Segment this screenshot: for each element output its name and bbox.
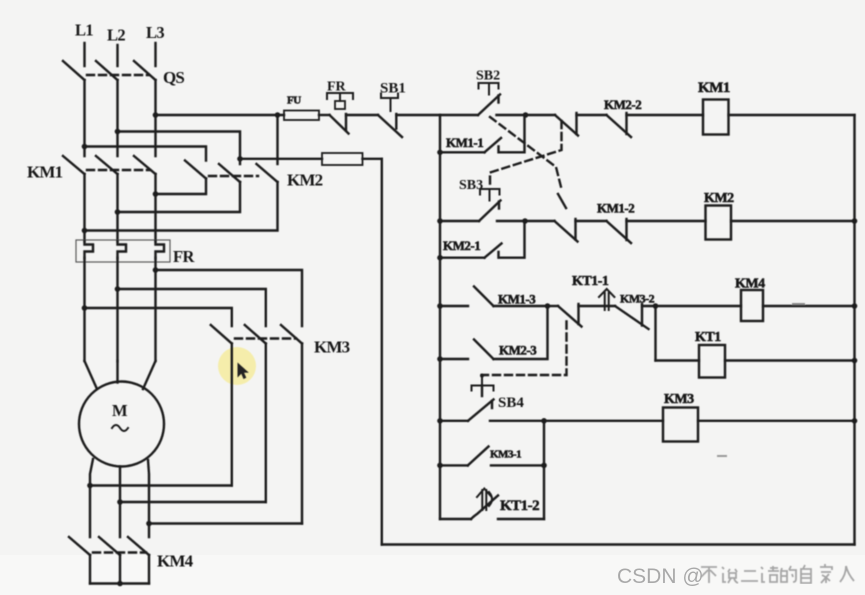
contactor KM2 pole 1 blade — [185, 161, 206, 179]
wire KM3 feed from L3 — [156, 270, 303, 326]
wire L3 branch to FU and control — [156, 114, 285, 116]
coil KM1 box — [703, 100, 729, 135]
contact KM2-2 NC blade — [607, 115, 632, 137]
contactor KM1 link dashed — [87, 169, 150, 171]
node junction motor out 3 to KM3 — [146, 521, 152, 527]
pushbutton SB2 actuator — [479, 83, 499, 95]
node junction rail KM1-3 — [437, 303, 443, 309]
motor tilde symbol — [112, 425, 128, 431]
glyph jia — [820, 564, 832, 583]
pushbutton SB3 actuator — [480, 189, 500, 201]
contact KM2-2 NC fixed bar — [625, 113, 627, 134]
svg-text:SB2: SB2 — [476, 69, 500, 84]
node junction right rail KM3 — [852, 418, 858, 424]
node junction rail KM1-1 — [437, 150, 443, 156]
wire L2 branch to KM2 pole2 — [118, 132, 241, 165]
contact KM2-1 wire right — [499, 221, 525, 258]
pushbutton SB2 blade — [478, 95, 500, 116]
svg-text:KM3: KM3 — [664, 392, 694, 407]
wire node E vertical — [543, 421, 545, 519]
contact SB2-linked NC fixed bar rung2 — [574, 219, 576, 240]
rung 6 wire SB4 to node E — [490, 420, 544, 422]
wire L2 supply stub — [116, 45, 118, 66]
timer contact KT1-2 blade — [471, 496, 498, 520]
svg-text:KM3-2: KM3-2 — [620, 292, 655, 306]
contact KM1-3 wire left — [440, 305, 468, 307]
rung 1 wire to KM2-2 — [577, 114, 607, 116]
contact KM3-2 NC blade — [615, 306, 649, 329]
wire L1 branch to KM2 pole1 — [85, 147, 207, 161]
rung 2 wire node B to SB2 linked NC — [525, 220, 555, 222]
node junction motor out 1 to KM3 — [87, 483, 93, 489]
svg-text:KM3-1: KM3-1 — [490, 449, 521, 461]
rung 4 wire coil KM4 to right rail — [763, 305, 855, 307]
rung 2 wire to KM1-2 — [576, 220, 607, 222]
wire KM3 pole2 down — [265, 344, 267, 503]
contact KM3-1 NO blade — [468, 447, 489, 466]
contactor KM3 link dashed — [235, 337, 296, 339]
rung 4 wire KM1-3 to node C — [494, 305, 548, 307]
dashed link rung1 NC to SB3 — [490, 121, 562, 188]
contact SB3-linked NC blade rung1 — [555, 115, 578, 136]
node junction rail SB4 — [437, 418, 443, 424]
svg-text:SB4: SB4 — [498, 395, 524, 411]
wire SB1 to left rail — [396, 114, 440, 116]
wire motor lead in 3 — [143, 361, 156, 389]
node junction KM3 feed L3 — [153, 267, 159, 273]
svg-text:SB1: SB1 — [380, 81, 406, 97]
contact KM3-2 NC fixed bar — [641, 304, 643, 326]
node junction rail KM2-1 — [437, 255, 443, 261]
watermark CSDN — [617, 565, 704, 588]
svg-text:L2: L2 — [107, 26, 125, 45]
wire L1 FR to motor — [83, 258, 85, 361]
thermal contact FR actuator — [327, 93, 353, 101]
coil KT1 box — [699, 345, 725, 378]
glyph ren — [840, 566, 854, 582]
wire bottom return rail — [382, 543, 855, 545]
wire FU2 to return rail corner — [363, 158, 382, 160]
contactor KM3 pole 1 blade — [211, 325, 232, 344]
svg-text:KM4: KM4 — [157, 552, 194, 571]
contactor KM4 pole 2 blade — [99, 537, 120, 555]
glyph zi — [801, 565, 811, 583]
contactor KM3 pole 2 blade — [245, 325, 266, 344]
svg-text:QS: QS — [163, 68, 184, 87]
wire KM2 pole3 feed vertical — [276, 115, 278, 164]
contactor KM2 pole 2 blade — [219, 164, 240, 182]
node D junction — [653, 303, 659, 309]
contact KM1-1 wire left — [440, 151, 485, 153]
svg-text:KM2-1: KM2-1 — [443, 238, 480, 253]
wire L3 vertical QS to KM1 — [154, 80, 156, 156]
rung 1 wire node A to SB3 linked NC — [526, 114, 556, 116]
thermal relay FR heater 1 — [85, 241, 94, 258]
rung 2 wire KM1-2 to coil KM2 — [627, 220, 706, 222]
wire motor lead in 1 — [85, 361, 98, 389]
thermal relay FR box — [76, 240, 170, 262]
rung 5 wire KM2-3 up to node C — [494, 306, 548, 359]
svg-text:KM2: KM2 — [287, 171, 323, 190]
cursor arrow — [238, 363, 249, 380]
wire KM2 pole3 output crossover — [85, 182, 278, 231]
wire L3 FR to motor — [154, 258, 156, 361]
contact SB3-linked NC fixed bar rung1 — [575, 113, 577, 134]
node junction FU tap — [275, 112, 281, 118]
node junction rail KM2-3 — [437, 356, 443, 362]
rung 4 wire node D to coil KM4 — [656, 305, 742, 307]
svg-text:KM2-3: KM2-3 — [499, 343, 537, 358]
wire L2 vertical KM1 to FR — [116, 174, 118, 241]
wire motor lead out 1 — [90, 459, 93, 537]
svg-text:M: M — [112, 401, 128, 420]
timer contact KT1-1 NC blade — [558, 306, 582, 327]
contact KM2-1 wire left — [440, 257, 485, 259]
contactor KM1 pole 1 blade — [63, 156, 85, 174]
glyph shuo — [722, 567, 738, 583]
rung 1 wire rail to SB2 — [440, 114, 478, 116]
wire KM3 pole1 down — [231, 344, 233, 486]
node A junction — [523, 112, 529, 118]
timer KT1-1 delay arrow — [599, 289, 614, 310]
wire KM2 pole2 output — [118, 182, 241, 212]
node junction right rail KT1 — [852, 358, 858, 364]
contact KM2-3 NO blade — [474, 340, 494, 360]
wire FU1 to FR contact — [319, 114, 330, 116]
node junction right rail rung2 — [852, 218, 858, 224]
rung 2 wire SB3 to node B — [497, 220, 525, 222]
dashed link SB4 to KT1-1 — [482, 317, 567, 376]
node junction right rail rung4 — [852, 303, 858, 309]
contactor KM1 pole 2 blade — [96, 156, 118, 174]
svg-text:KM1: KM1 — [27, 163, 63, 182]
wire KM4 pole3 down — [148, 555, 150, 584]
switch QS pole 3 blade — [134, 61, 156, 80]
watermark chinese glyphs — [701, 564, 854, 583]
rung 6 wire node E to coil KM3 — [544, 420, 663, 422]
pushbutton SB1 actuator — [381, 94, 398, 112]
contactor KM2 pole 3 blade — [257, 164, 278, 182]
wire FU2 to L2 tap — [240, 158, 322, 160]
wire L1 vertical QS to KM1 — [83, 80, 85, 156]
node junction L1 branch — [82, 144, 88, 150]
svg-text:KM2: KM2 — [704, 191, 734, 206]
rung 4 wire node C to KT1-1 — [548, 305, 559, 307]
contact KM1-1 wire right — [499, 115, 525, 152]
cursor highlight circle — [218, 347, 256, 385]
wire FR to SB1 — [346, 114, 378, 116]
rung 1 wire KM2-2 to coil KM1 — [627, 114, 704, 116]
contact KM1-3 NO blade — [474, 287, 494, 307]
pushbutton SB1 fixed bar — [395, 114, 397, 129]
node junction rail KM3-1 — [437, 463, 443, 469]
thermal contact FR fixed bar — [345, 114, 347, 131]
node junction KM2 pole1 to L3 line — [153, 191, 159, 197]
contact KM2-3 wire left — [440, 358, 468, 360]
wire right rail — [853, 115, 855, 545]
wire KM4 shorting bar — [90, 582, 149, 584]
pushbutton SB4 blade — [468, 400, 494, 421]
wire KM4 pole2 down — [119, 555, 121, 584]
rung 8 wire rail corner to KT1-2 — [440, 518, 471, 520]
contactor KM4 link dashed — [93, 551, 146, 553]
wire L1 vertical KM1 to FR — [83, 174, 85, 241]
coil KM3 box — [663, 408, 698, 442]
svg-text:KM1-1: KM1-1 — [446, 135, 483, 150]
wire motor out3 to KM3 pole3 — [149, 522, 302, 524]
rung 2 wire rail to SB3 — [440, 220, 479, 222]
node junction E2 — [541, 463, 547, 469]
node junction KM3 feed L2 — [115, 286, 121, 292]
wire KT1 branch to coil — [656, 359, 700, 361]
switch QS pole 2 blade — [96, 61, 118, 80]
node junction L3 control tap — [153, 112, 159, 118]
contactor KM1 pole 3 blade — [134, 156, 156, 174]
wire KM3 feed from L2 — [118, 289, 266, 326]
node E junction — [541, 418, 547, 424]
pushbutton SB4 fixed tick — [491, 401, 493, 408]
pushbutton SB4 actuator — [472, 377, 494, 391]
contactor KM4 pole 3 blade — [128, 537, 149, 555]
glyph bu — [701, 567, 717, 583]
svg-text:KM2-2: KM2-2 — [604, 97, 641, 112]
contact KM3-1 wire right — [491, 464, 544, 466]
contact KM1-1 NO blade — [485, 138, 502, 152]
wire KM3 feed from L1 — [85, 308, 232, 326]
wire motor lead out 2 — [119, 467, 121, 538]
wire L3 supply stub — [154, 43, 156, 66]
wire L3 vertical KM1 to FR — [154, 174, 156, 241]
wire motor out1 to KM3 pole1 — [90, 484, 232, 486]
contact SB2-linked NC blade rung2 — [555, 221, 578, 242]
timer contact KT1-1 fixed bar — [577, 304, 579, 324]
thermal relay FR heater 2 — [118, 241, 127, 258]
svg-text:KM1: KM1 — [698, 80, 730, 96]
contact KM3-1 wire left — [440, 464, 468, 466]
node junction motor out 2 to KM3 — [117, 499, 123, 505]
svg-text:KM1-2: KM1-2 — [597, 201, 634, 216]
contact KM2-1 NO blade — [485, 244, 502, 258]
wire KT1 branch vertical — [654, 306, 656, 361]
dashed link SB2 to rung2 NC — [490, 117, 562, 191]
contactor KM3 pole 3 blade — [281, 325, 302, 344]
fuse FU2 body — [322, 153, 363, 165]
glyph hua — [761, 566, 779, 582]
coil KM4 box — [741, 290, 763, 321]
thermal relay FR heater 3 — [156, 241, 165, 258]
pushbutton SB3 fixed tick — [498, 202, 500, 209]
fuse FU1 body — [284, 111, 319, 121]
glyph er — [741, 571, 758, 581]
svg-text:L1: L1 — [75, 21, 93, 40]
wire KM2 pole1 output crossover — [156, 179, 207, 195]
node junction FU2 on KM2 pole2 feed — [237, 156, 243, 162]
pushbutton SB3 blade — [479, 201, 501, 222]
wire left rail — [439, 115, 441, 519]
glyph de — [781, 566, 796, 582]
svg-text:CSDN @: CSDN @ — [617, 565, 704, 588]
svg-text:KT1-2: KT1-2 — [500, 498, 539, 514]
svg-text:FU: FU — [287, 95, 301, 107]
svg-text:KM1-3: KM1-3 — [498, 292, 536, 307]
node SB4 link dot — [480, 374, 484, 378]
rung 6 wire rail to SB4 — [440, 420, 468, 422]
rung 1 wire SB2 to node A — [497, 114, 526, 116]
svg-text:KT1: KT1 — [695, 330, 721, 345]
wire motor lead in 2 — [116, 361, 118, 383]
node junction L2 branch — [115, 129, 121, 135]
switch QS link dashed — [87, 74, 149, 76]
contact SB2-linked NC upper blade rung2 — [558, 194, 566, 208]
contact KM1-2 NC blade — [607, 221, 632, 243]
rung 8 wire KT1-2 to vertical — [498, 518, 544, 520]
node junction KM4 bar middle — [117, 581, 123, 587]
wire motor lead out 3 — [148, 460, 149, 537]
rung 2 wire coil KM2 to right rail — [731, 220, 855, 222]
rung 4 wire KT1-1 to KM3-2 — [579, 305, 616, 307]
thermal contact FR element box — [335, 101, 345, 109]
contactor KM2 link dashed — [209, 175, 258, 177]
coil KM2 box — [706, 206, 732, 240]
wire L2 FR to motor — [116, 258, 118, 361]
timer KT1-2 delay arrow — [477, 489, 492, 511]
pushbutton SB1 blade — [378, 115, 402, 137]
pushbutton SB4 stem — [481, 386, 483, 397]
thermal contact FR blade — [330, 115, 349, 134]
switch QS pole 1 blade — [63, 61, 85, 80]
wire KM3 pole3 down — [301, 344, 303, 524]
artifact dash 2 — [718, 455, 726, 457]
motor M circle — [79, 382, 164, 467]
rung 6 wire coil KM3 to right rail — [698, 420, 855, 422]
node C junction — [545, 303, 551, 309]
svg-text:FR: FR — [173, 247, 195, 266]
wire L2 vertical QS to KM1 — [116, 80, 118, 156]
artifact dash 1 — [793, 303, 804, 305]
wire coil KT1 to right rail — [725, 359, 855, 361]
svg-text:KM3: KM3 — [314, 338, 350, 357]
node junction KM2 pole2 to L2 line — [115, 209, 121, 215]
wire L1 supply stub — [83, 43, 85, 66]
contact KM1-2 NC fixed bar — [625, 219, 627, 240]
contactor KM4 pole 1 blade — [69, 537, 90, 555]
node junction rail rung2 — [437, 218, 443, 224]
svg-text:L3: L3 — [146, 23, 164, 42]
svg-text:KT1-1: KT1-1 — [572, 274, 609, 289]
rung 1 wire coil KM1 to right rail — [729, 114, 855, 116]
wire return rail left vertical — [381, 159, 383, 545]
wire KM4 pole1 down — [89, 555, 91, 584]
node junction KM2 pole3 to L1 line — [82, 228, 88, 234]
node B junction — [522, 218, 528, 224]
node junction KM3 feed L1 — [82, 305, 88, 311]
wire motor out2 to KM3 pole2 — [120, 501, 266, 503]
pushbutton SB2 fixed tick — [497, 96, 499, 103]
rung 4 wire KM3-2 to node D — [642, 305, 656, 307]
